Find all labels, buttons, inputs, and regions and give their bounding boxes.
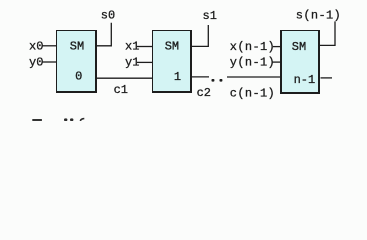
wire y1 input bbox=[137, 61, 153, 63]
svg-text:c1: c1 bbox=[114, 83, 128, 97]
svg-text:0: 0 bbox=[75, 70, 82, 84]
svg-text:SM: SM bbox=[70, 40, 84, 54]
caption fragment: top of F bbox=[32, 119, 42, 121]
wire y0 input bbox=[42, 61, 57, 63]
sum module SM 1 (box U1) bbox=[152, 30, 192, 93]
svg-text:n-1: n-1 bbox=[294, 73, 316, 87]
caption fragment: digit top 1 bbox=[64, 118, 67, 121]
svg-text:y(n-1): y(n-1) bbox=[230, 56, 275, 70]
svg-text:s1: s1 bbox=[203, 9, 217, 23]
wire c2 carry stub bbox=[192, 76, 209, 78]
svg-text:c2: c2 bbox=[197, 86, 211, 100]
svg-text:1: 1 bbox=[174, 70, 181, 84]
svg-text:x0: x0 bbox=[29, 39, 43, 53]
svg-text:s0: s0 bbox=[101, 9, 115, 23]
wire s0 output bbox=[96, 23, 111, 46]
wire x(n-1) input stub bbox=[273, 46, 281, 48]
svg-text:x(n-1): x(n-1) bbox=[230, 40, 275, 54]
ellipsis dot 1 bbox=[212, 79, 215, 82]
svg-text:SM: SM bbox=[292, 40, 306, 54]
sum module SM 0 (box U0) bbox=[56, 30, 97, 93]
ellipsis dot 2 bbox=[220, 79, 223, 82]
svg-text:s(n-1): s(n-1) bbox=[296, 8, 341, 22]
wire y(n-1) input stub bbox=[273, 61, 282, 63]
caption fragment: digit top 2 bbox=[70, 118, 73, 121]
sum module SM n-1 (box Un-1) bbox=[280, 30, 320, 94]
wire c(n-1) carry bbox=[227, 76, 280, 78]
caption fragment: top of S bbox=[80, 119, 84, 121]
wire c1 carry bbox=[96, 77, 152, 79]
wire x1 input bbox=[137, 46, 153, 48]
svg-text:SM: SM bbox=[165, 40, 179, 54]
wire s(n-1) output bbox=[320, 21, 335, 45]
wire s1 output bbox=[192, 25, 208, 46]
wire carry out c(n) bbox=[321, 77, 333, 79]
svg-text:c(n-1): c(n-1) bbox=[230, 86, 275, 100]
wire x0 input bbox=[42, 45, 57, 47]
svg-text:y0: y0 bbox=[29, 55, 43, 69]
